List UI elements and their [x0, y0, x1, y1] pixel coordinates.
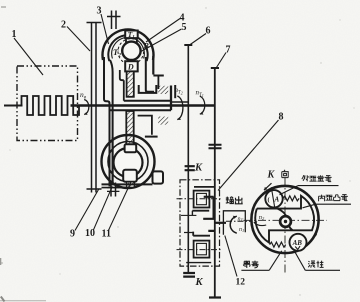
svg-text:K: K — [194, 163, 203, 174]
svg-text:n1: n1 — [239, 227, 244, 233]
svg-text:K: K — [195, 277, 204, 288]
svg-text:A: A — [274, 196, 280, 204]
svg-text:6: 6 — [206, 26, 211, 37]
svg-text:B: B — [143, 42, 150, 51]
svg-text:AB: AB — [292, 239, 303, 247]
svg-text:10: 10 — [85, 228, 95, 239]
svg-text:2: 2 — [61, 20, 66, 31]
svg-text:3: 3 — [97, 6, 102, 17]
svg-text:11: 11 — [102, 229, 111, 240]
svg-text:12: 12 — [236, 278, 246, 288]
svg-text:nT: nT — [238, 217, 244, 223]
svg-text:1: 1 — [12, 29, 17, 40]
svg-text:7: 7 — [226, 45, 231, 56]
svg-text:8: 8 — [279, 112, 284, 123]
svg-text:9: 9 — [70, 229, 75, 240]
svg-text:D: D — [127, 63, 134, 72]
svg-text:(: ( — [268, 197, 270, 204]
svg-text:K: K — [267, 169, 276, 180]
svg-text:5: 5 — [182, 22, 187, 33]
